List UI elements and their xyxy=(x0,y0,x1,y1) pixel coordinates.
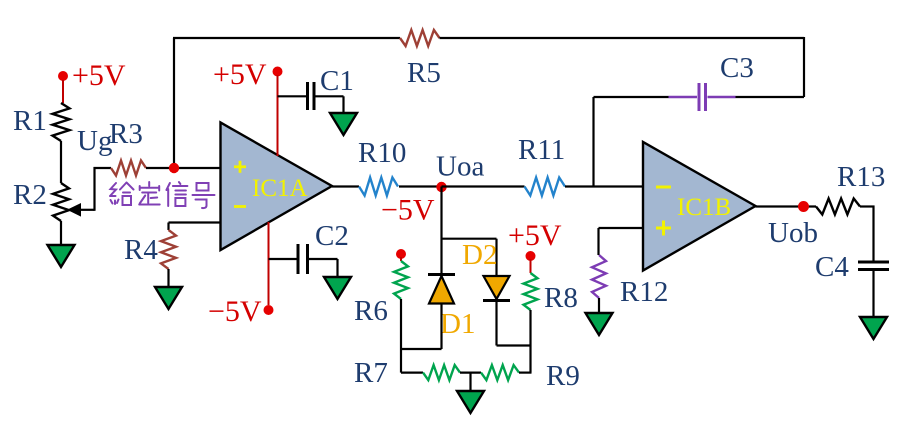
wire branch to D2 xyxy=(442,239,497,276)
power -5V node (IC1A) xyxy=(264,222,274,315)
ground below R7/R9 xyxy=(457,391,484,414)
wire wiper riser xyxy=(93,167,95,211)
svg-text:D2: D2 xyxy=(462,239,497,271)
wire Uoa-R11 xyxy=(442,185,525,187)
wire IC1B out xyxy=(756,205,817,207)
wire to C2 xyxy=(269,258,297,260)
wire top right xyxy=(440,37,805,39)
wire D2 down xyxy=(497,301,532,346)
power -5V node (R6) xyxy=(396,249,406,261)
capacitor C2 xyxy=(298,244,308,274)
svg-text:C2: C2 xyxy=(315,220,349,252)
ground below R2 xyxy=(48,245,75,268)
wire to C1 xyxy=(278,95,307,97)
capacitor C3 xyxy=(669,83,736,111)
svg-text:R7: R7 xyxy=(354,357,388,389)
svg-text:R11: R11 xyxy=(518,134,565,166)
wire to R4 xyxy=(167,223,169,231)
resistor R1 xyxy=(53,103,70,141)
ground below C4 xyxy=(860,317,887,340)
svg-text:C1: C1 xyxy=(320,65,354,97)
node Uoa xyxy=(436,182,446,192)
wire R10-Uoa xyxy=(399,185,442,187)
svg-text:R8: R8 xyxy=(544,282,578,314)
wire R1-R2 xyxy=(60,141,62,183)
wire right down to output xyxy=(803,37,805,97)
wire C1-ground xyxy=(316,96,344,113)
svg-text:R12: R12 xyxy=(620,276,668,308)
wire R4-ground xyxy=(167,269,169,287)
wire R13-C4 xyxy=(860,206,875,261)
svg-text:−5V: −5V xyxy=(381,194,435,227)
wire to R12 xyxy=(597,228,599,255)
svg-text:R3: R3 xyxy=(109,118,143,150)
wire C3 left xyxy=(594,96,669,98)
svg-text:R6: R6 xyxy=(354,295,388,327)
ground below R4 xyxy=(155,287,182,310)
wire C2-ground xyxy=(309,259,338,277)
label 给定信号 (setpoint signal) xyxy=(110,182,215,208)
resistor R13 xyxy=(816,199,860,215)
capacitor C1 xyxy=(308,82,315,110)
power +5V node (IC1A) xyxy=(273,67,283,157)
capacitor C4 xyxy=(858,262,889,270)
resistor R2 (potentiometer) xyxy=(53,183,69,221)
resistor R11 xyxy=(525,178,566,196)
wire mid node xyxy=(460,372,481,374)
svg-text:R5: R5 xyxy=(407,57,441,89)
svg-text:+5V: +5V xyxy=(213,58,267,91)
ground below C2 xyxy=(324,277,351,300)
svg-text:IC1A: IC1A xyxy=(252,175,308,202)
node Uob xyxy=(798,201,809,212)
wire R7 left xyxy=(401,372,423,374)
svg-text:R10: R10 xyxy=(358,137,406,169)
svg-text:R1: R1 xyxy=(13,105,47,137)
ground below R12 xyxy=(586,313,613,336)
svg-text:Uob: Uob xyxy=(768,217,818,249)
wire R9 right xyxy=(519,372,532,374)
wire R3 to opamp + input xyxy=(146,167,221,169)
svg-text:R2: R2 xyxy=(13,179,47,211)
svg-text:R4: R4 xyxy=(124,234,158,266)
node junction (setpoint) xyxy=(169,163,179,173)
diode D1 xyxy=(428,275,455,304)
resistor R8 xyxy=(524,273,538,310)
ground below C1 xyxy=(330,113,357,136)
wire feedback riser xyxy=(173,38,175,163)
resistor R10 xyxy=(359,178,398,196)
resistor R7 xyxy=(423,365,460,380)
svg-text:R13: R13 xyxy=(837,161,885,193)
resistor R5 xyxy=(400,30,440,46)
wire C4-ground xyxy=(872,271,874,317)
resistor R9 xyxy=(481,365,519,380)
wire R2-ground xyxy=(60,221,62,245)
wire wiper to R3 xyxy=(94,167,112,169)
wire C3 right xyxy=(736,96,805,98)
svg-text:IC1B: IC1B xyxy=(677,194,731,221)
resistor R3 xyxy=(111,161,146,176)
wire D1 down xyxy=(440,304,442,350)
wire node-ground stub xyxy=(469,373,471,391)
wire Uoa down xyxy=(440,187,442,274)
wire R8 down xyxy=(529,310,531,373)
svg-text:C3: C3 xyxy=(720,52,754,84)
wire IC1A - input xyxy=(169,221,222,223)
power +5V node (R8) xyxy=(526,251,536,273)
svg-text:Ug: Ug xyxy=(77,125,112,157)
svg-text:+5V: +5V xyxy=(72,59,126,92)
op-amp U1 IC1A xyxy=(221,123,333,251)
wire top left xyxy=(173,37,400,39)
op-amp U2 IC1B xyxy=(643,142,756,271)
svg-text:C4: C4 xyxy=(815,251,849,283)
potentiometer wiper arrow xyxy=(67,203,95,217)
node C3 tap xyxy=(592,97,594,187)
wire R6 down xyxy=(400,299,442,373)
resistor R6 xyxy=(394,261,408,299)
power +5V node (left) xyxy=(58,71,68,103)
svg-text:D1: D1 xyxy=(440,308,475,340)
svg-text:R9: R9 xyxy=(546,360,580,392)
svg-text:Uoa: Uoa xyxy=(436,151,484,183)
wire IC1B + input xyxy=(599,227,644,229)
diode D2 xyxy=(483,276,510,301)
wire R12-ground xyxy=(598,298,600,313)
resistor R12 xyxy=(592,255,606,298)
wire R11 to IC1B - input xyxy=(565,185,644,187)
svg-text:+5V: +5V xyxy=(508,219,562,252)
wire IC1A out xyxy=(332,185,359,187)
svg-text:−5V: −5V xyxy=(208,295,262,328)
resistor R4 xyxy=(161,230,176,269)
